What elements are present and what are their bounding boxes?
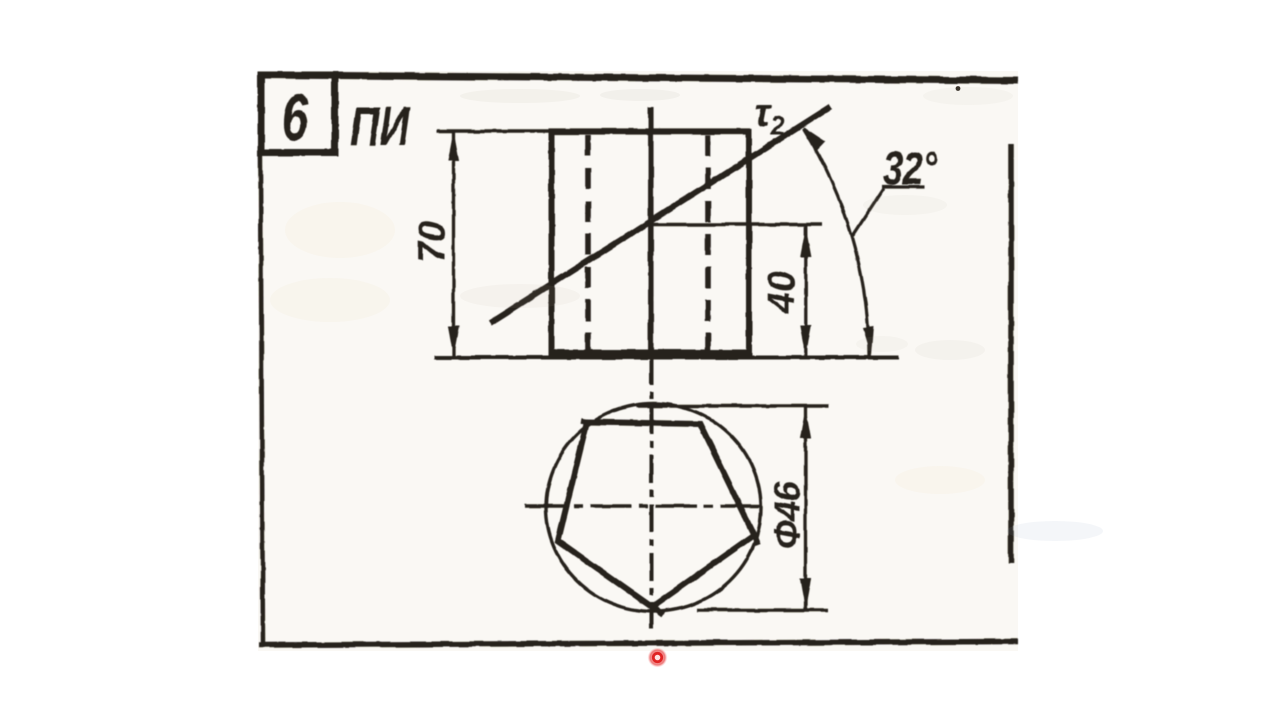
hidden edge (dashed) right	[705, 135, 711, 352]
underline of 32	[882, 185, 924, 188]
dimension 40: dimension line	[804, 226, 807, 356]
dimension 40: extension line	[651, 223, 822, 226]
svg-text:ПИ: ПИ	[350, 96, 410, 157]
scan smudges	[270, 87, 1103, 541]
dimension 70: value label	[412, 221, 454, 263]
dimension phi46: bottom extension line	[697, 608, 829, 611]
hidden edge (dashed) left	[585, 135, 591, 352]
angle arc 32 degrees	[804, 129, 869, 356]
svg-text:6: 6	[282, 81, 309, 154]
centre line continuation to top view (dash-dot)	[650, 357, 654, 628]
angle arc top arrow	[803, 127, 825, 150]
ground / base line	[434, 356, 899, 360]
dimension phi46: bottom arrow	[800, 579, 811, 609]
page background	[258, 71, 1018, 651]
frame bottom border	[259, 642, 1018, 646]
svg-text:2: 2	[769, 111, 785, 141]
dimension 70: top arrow	[448, 131, 459, 161]
horizontal centre line	[525, 504, 763, 508]
task number box "6"	[261, 75, 335, 153]
dimension 70: bottom arrow	[448, 326, 459, 356]
title PI	[350, 96, 410, 157]
dimension phi46: top extension line	[636, 404, 829, 407]
front edge / axis of prism (front view)	[648, 107, 654, 357]
red laser pointer dot	[648, 648, 668, 668]
svg-text:70: 70	[412, 221, 454, 263]
dimension 40: value label	[761, 271, 803, 314]
dimension 40: top arrow	[800, 227, 811, 257]
dimension phi46: dimension line	[804, 407, 807, 610]
dimension 70: dimension line	[452, 131, 455, 356]
svg-text:40: 40	[761, 271, 803, 314]
frame top border	[259, 75, 1018, 81]
angle arc bottom arrow	[863, 326, 874, 356]
task number 6	[282, 81, 309, 154]
leader line of 32	[853, 188, 885, 236]
frame left border	[260, 72, 263, 646]
dimension 40: bottom arrow	[800, 325, 811, 355]
svg-text:Φ46: Φ46	[767, 481, 808, 550]
dimension phi46: value label	[767, 481, 808, 550]
label 32 degrees	[883, 143, 938, 194]
section plane trace line	[490, 107, 831, 324]
front view: prism rectangle	[549, 129, 753, 357]
dimension phi46: top arrow	[800, 408, 811, 438]
dimension 70: extension line	[437, 129, 552, 132]
ink speck	[956, 86, 961, 91]
label tau2	[754, 91, 785, 141]
top view: circumscribed circle	[546, 404, 761, 612]
frame right border	[1008, 144, 1014, 563]
top view: pentagon	[558, 421, 758, 615]
